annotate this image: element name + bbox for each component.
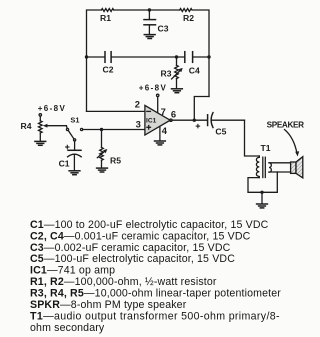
wire to ground (T1) [261,192,263,203]
wire C5 to transformer primary [245,120,260,156]
capacitor C4 [185,52,193,63]
svg-text:R1: R1 [100,13,111,23]
wire non-inverting input (pin 3) [83,129,145,131]
svg-text:C2, C4—0.001-uF ceramic capaci: C2, C4—0.001-uF ceramic capacitor, 15 VD… [30,230,251,242]
ground (C3) [144,35,155,39]
wire inverting input (pin 2) [87,110,145,112]
svg-text:+6-8V: +6-8V [139,84,168,93]
wire pin 4 to ground [159,127,161,141]
ground (R3) [172,89,183,93]
resistor R1 [101,9,113,12]
wire top rail middle [114,9,179,11]
node middle rail / left rail junction [85,55,88,58]
ground (R4) [35,141,46,145]
svg-text:C1: C1 [59,159,70,169]
ground (IC1 pin 4) [155,141,166,145]
svg-text:IC1—741 op amp: IC1—741 op amp [30,265,115,277]
op-amp plus sign [147,126,151,130]
svg-text:C3: C3 [158,23,169,33]
svg-text:C3—0.002-uF ceramic capacitor,: C3—0.002-uF ceramic capacitor, 15 VDC [30,242,231,254]
transformer T1 primary winding [256,156,259,178]
op-amp minus sign [147,110,151,112]
potentiometer R3 [172,57,183,88]
ground (T1) [257,204,268,208]
wire secondary top lead [269,162,291,164]
capacitor C5 [208,113,245,128]
svg-text:R2: R2 [183,13,194,23]
wire feedback jog to right rail [194,97,209,121]
svg-text:C4: C4 [189,65,200,75]
speaker cone [296,157,303,178]
op-amp U1 triangle [145,105,170,135]
svg-text:C5: C5 [215,126,226,136]
svg-text:R3: R3 [161,69,172,79]
svg-text:SPEAKER: SPEAKER [267,121,305,130]
wire top rail left segment [87,10,102,111]
node R3 junction [175,55,178,58]
svg-text:R5: R5 [110,155,121,165]
speaker driver [291,162,296,173]
svg-text:T1—audio output transformer 50: T1—audio output transformer 500-ohm prim… [30,310,280,322]
node feedback junction [193,119,196,122]
capacitor C1 [68,141,82,170]
svg-text:4: 4 [162,125,168,136]
svg-text:ohm secondary: ohm secondary [30,322,105,334]
svg-text:R1, R2—100,000-ohm, ½-watt res: R1, R2—100,000-ohm, ½-watt resistor [30,276,217,288]
wire output [172,119,207,121]
wire middle rail center [111,56,184,58]
speaker pointer arrow [285,130,298,154]
node +6-8V supply terminal (left) [39,114,41,116]
transformer T1 core [262,157,264,177]
capacitor C2 [105,52,111,63]
node +6-8V supply terminal (pin 7) [157,94,159,96]
switch S1 [66,126,82,141]
svg-text:2: 2 [135,99,140,110]
wire primary bottom to common rail [248,172,277,192]
svg-text:C5—100-uF electrolytic capacit: C5—100-uF electrolytic capacitor, 15 VDC [30,253,235,265]
node right rail junction [207,55,210,58]
svg-text:S1: S1 [70,115,79,124]
potentiometer R4 [39,116,67,141]
parts list [30,219,281,334]
svg-text:3: 3 [136,118,141,129]
node common/ground junction [260,191,263,194]
wire secondary bottom lead [269,171,291,173]
svg-text:C2: C2 [103,65,114,75]
svg-text:6: 6 [171,108,176,119]
svg-text:T1: T1 [261,143,271,153]
capacitor C5 polarity mark [196,124,199,127]
svg-text:R3, R4, R5—10,000-ohm linear-t: R3, R4, R5—10,000-ohm linear-taper poten… [30,288,281,300]
ground (R5) [97,168,108,172]
svg-text:SPKR—8-ohm PM type speaker: SPKR—8-ohm PM type speaker [30,299,187,311]
svg-text:R4: R4 [21,121,32,131]
ground (C1) [69,171,80,175]
capacitor C1 polarity mark [66,145,69,148]
potentiometer R5 [97,130,107,168]
svg-text:IC1: IC1 [146,117,157,124]
capacitor C3 [144,10,156,34]
transformer T1 secondary winding [269,163,271,172]
wire middle rail right [193,56,209,58]
wire top rail right + right rail [193,10,209,97]
node op-amp output (pin 6) [170,119,172,121]
node C3 top junction [148,8,151,11]
svg-text:+6-8V: +6-8V [38,104,67,113]
wire pin 7 to supply [157,97,159,114]
node R5 junction [100,128,103,131]
wire middle rail left [87,56,105,58]
svg-text:7: 7 [161,106,166,117]
svg-text:C1—100 to 200-uF electrolytic: C1—100 to 200-uF electrolytic capacitor,… [30,219,269,231]
resistor R2 [180,9,192,12]
